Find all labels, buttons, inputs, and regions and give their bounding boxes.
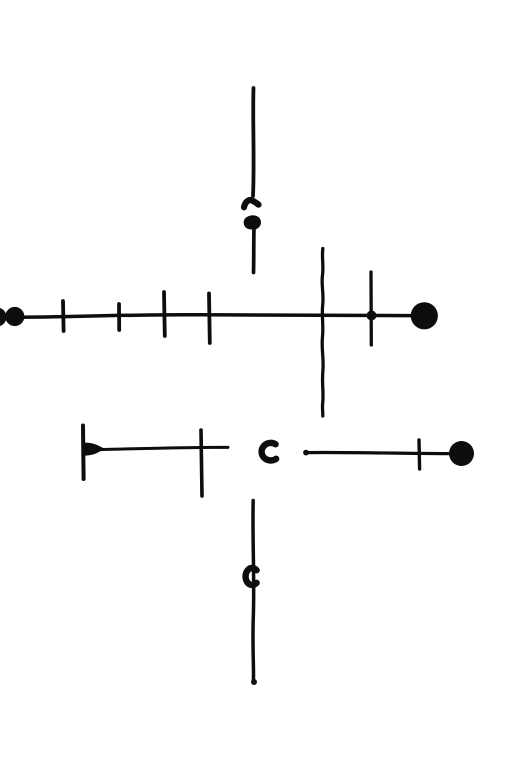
element tick 2 xyxy=(117,304,121,330)
element tick lower-left xyxy=(201,430,202,496)
element tick 4 xyxy=(207,294,212,344)
node terminal dot right xyxy=(411,302,438,329)
element tick 5 xyxy=(369,272,373,345)
capacitor C1 bottom plate xyxy=(245,217,260,229)
wire lower-right xyxy=(306,452,449,453)
capacitor label C bottom xyxy=(246,568,257,585)
node terminal dot left xyxy=(5,307,24,326)
node junction dot xyxy=(367,311,377,321)
wire bottom vertical xyxy=(251,501,255,682)
element long vertical dipole xyxy=(322,249,323,417)
element lower-left bar xyxy=(81,426,86,480)
node bottom tip dot xyxy=(251,679,257,685)
node terminal dot lower-right xyxy=(449,441,474,466)
wire lower-left xyxy=(100,447,228,449)
wire top vertical feed xyxy=(251,88,255,196)
wire main horizontal boom xyxy=(6,315,412,318)
element tick 1 xyxy=(61,301,65,331)
matching stub arrow blob xyxy=(84,443,103,454)
capacitor C1 top plate xyxy=(244,200,259,207)
wire capacitor stem xyxy=(252,228,256,273)
element tick 3 xyxy=(162,292,167,336)
capacitor label c xyxy=(262,443,277,461)
node start dot lower-right xyxy=(303,450,309,456)
node feed-point dot at left edge xyxy=(0,308,7,327)
element tick lower-right xyxy=(417,440,421,469)
